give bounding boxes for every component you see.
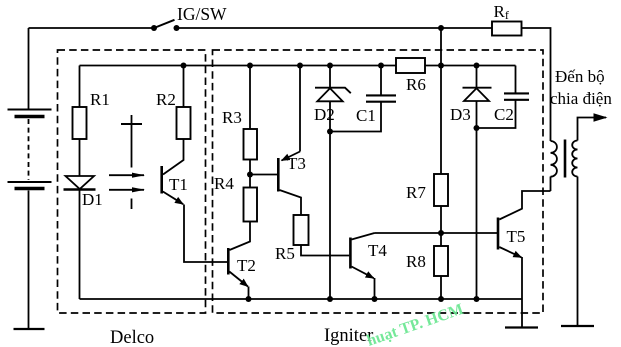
node A R3-R4-T3 base: [247, 172, 253, 178]
svg-text:R3: R3: [222, 108, 242, 127]
Delco dashed box: [58, 50, 206, 313]
wire T4 collector to T5 base: [352, 233, 498, 240]
wire battery to switch: [29, 27, 155, 29]
svg-text:D1: D1: [82, 190, 103, 209]
svg-text:T5: T5: [507, 227, 526, 246]
wire D3 down to rail: [476, 101, 478, 299]
svg-text:R5: R5: [275, 244, 295, 263]
svg-text:D3: D3: [450, 105, 471, 124]
transistor T3: [277, 158, 280, 192]
wire top rail right: [425, 65, 516, 67]
wire rail to R2: [183, 66, 185, 108]
wire rail to R3: [249, 66, 251, 130]
svg-text:R8: R8: [406, 252, 426, 271]
junction rail R2: [181, 63, 187, 69]
wire D2 down to rail: [329, 101, 331, 299]
wire battery negative down: [28, 191, 30, 330]
transistor T2: [227, 248, 230, 275]
resistor R3: [244, 129, 258, 160]
wire battery positive up: [28, 28, 30, 110]
wire rail to T3 emitter: [299, 66, 301, 152]
pickup reluctor cross: [131, 115, 133, 168]
wire R4 to T2 collector: [230, 222, 251, 251]
svg-text:Delco: Delco: [110, 328, 154, 347]
watermark: [365, 301, 466, 347]
node D3-C2: [474, 125, 480, 131]
wire T5 collector to coil: [499, 191, 550, 220]
battery cell 2 minus plate: [15, 187, 45, 191]
ignition coil primary L1: [551, 141, 557, 177]
svg-text:chia điện: chia điện: [550, 89, 612, 108]
node D2-C1: [327, 129, 333, 135]
capacitor C1: [380, 66, 382, 96]
node top feed: [438, 25, 444, 31]
transistor T4: [349, 238, 352, 269]
coil core: [564, 140, 567, 178]
zener D3: [476, 66, 478, 88]
wire feed drop x441: [440, 28, 442, 66]
svg-text:Rf: Rf: [494, 2, 509, 22]
wire x441 rail to R7: [440, 66, 442, 175]
junction rail D3: [474, 63, 480, 69]
svg-text:T2: T2: [237, 256, 256, 275]
svg-text:R4: R4: [214, 174, 234, 193]
junction rail T3 emitter: [297, 63, 303, 69]
signal arrow 2: [109, 189, 144, 191]
Igniter dashed box: [213, 50, 544, 313]
resistor R6: [396, 58, 425, 73]
battery cell 1 plus plate: [8, 109, 52, 111]
wire T2 emitter to rail: [248, 287, 250, 300]
svg-text:T3: T3: [287, 154, 306, 173]
signal arrow 1: [109, 174, 144, 176]
ground (battery): [14, 328, 45, 330]
wire top rail left: [80, 65, 397, 67]
wire switch to node: [177, 27, 442, 29]
resistor R7: [434, 174, 448, 206]
svg-text:T4: T4: [368, 241, 387, 260]
wire secondary to distributor arrow: [578, 118, 607, 141]
ground (secondary): [561, 325, 594, 327]
wire R5 to T4 base: [301, 245, 349, 256]
ignition coil secondary L2: [572, 141, 577, 177]
junction ground rail D2: [327, 296, 333, 302]
svg-text:R1: R1: [90, 90, 110, 109]
battery dashed link between cells: [28, 119, 30, 180]
switch left contact node: [151, 25, 157, 31]
diode D1: [66, 176, 95, 189]
resistor R5: [294, 215, 309, 245]
wire node to Rf: [441, 27, 492, 29]
wire T1 emitter to T2 base: [184, 205, 227, 263]
svg-text:IG/SW: IG/SW: [177, 4, 227, 24]
transistor T1: [160, 166, 163, 194]
resistor R8: [434, 246, 448, 276]
wire R8 to rail: [440, 276, 442, 299]
capacitor C2: [515, 66, 517, 94]
resistor R2: [177, 107, 191, 139]
svg-text:T1: T1: [169, 175, 188, 194]
node B R7-R8-T5 base: [438, 230, 444, 236]
transistor T5: [497, 218, 500, 250]
wire bottom rail: [80, 298, 523, 300]
switch IG/SW: [154, 20, 175, 28]
wire node A to T3 base: [250, 174, 277, 176]
wire Rf to coil: [522, 28, 551, 141]
junction rail R3: [247, 63, 253, 69]
junction rail C1: [378, 63, 384, 69]
wire T3 collector to R5: [280, 190, 302, 215]
wire R7 to R8 node B: [440, 206, 442, 246]
svg-text:C1: C1: [356, 106, 376, 125]
svg-text:C2: C2: [494, 105, 514, 124]
junction ground rail T2: [246, 296, 252, 302]
switch right contact node: [174, 25, 180, 31]
zener D2: [329, 66, 331, 88]
junction ground rail D3: [474, 296, 480, 302]
wire rail to R1: [79, 66, 81, 108]
resistor R1: [73, 107, 87, 139]
wire D1 down-left rail: [79, 190, 81, 300]
resistor Rf: [492, 22, 522, 36]
wire T4 emitter to rail: [374, 278, 376, 299]
junction ground rail R8: [438, 296, 444, 302]
svg-text:R6: R6: [406, 75, 426, 94]
wire R1 to D1: [79, 139, 81, 176]
wire R3 to R4, node A: [249, 160, 251, 188]
svg-text:R2: R2: [156, 90, 176, 109]
junction ground rail T4: [372, 296, 378, 302]
svg-text:Đến bộ: Đến bộ: [555, 67, 605, 86]
junction rail feed: [438, 63, 444, 69]
junction rail D2: [327, 63, 333, 69]
wire secondary to ground: [577, 177, 579, 327]
wire T5 emitter to ground: [521, 257, 523, 328]
battery cell 1 minus plate: [15, 115, 45, 119]
battery cell 2 plus plate: [8, 181, 52, 183]
svg-text:R7: R7: [406, 183, 426, 202]
svg-text:D2: D2: [314, 105, 335, 124]
svg-text:huạt TP. HCM: huạt TP. HCM: [365, 301, 466, 347]
ground (T5 emitter): [505, 326, 538, 328]
resistor R4: [244, 188, 258, 222]
wire R2 to T1 collector: [163, 139, 184, 175]
